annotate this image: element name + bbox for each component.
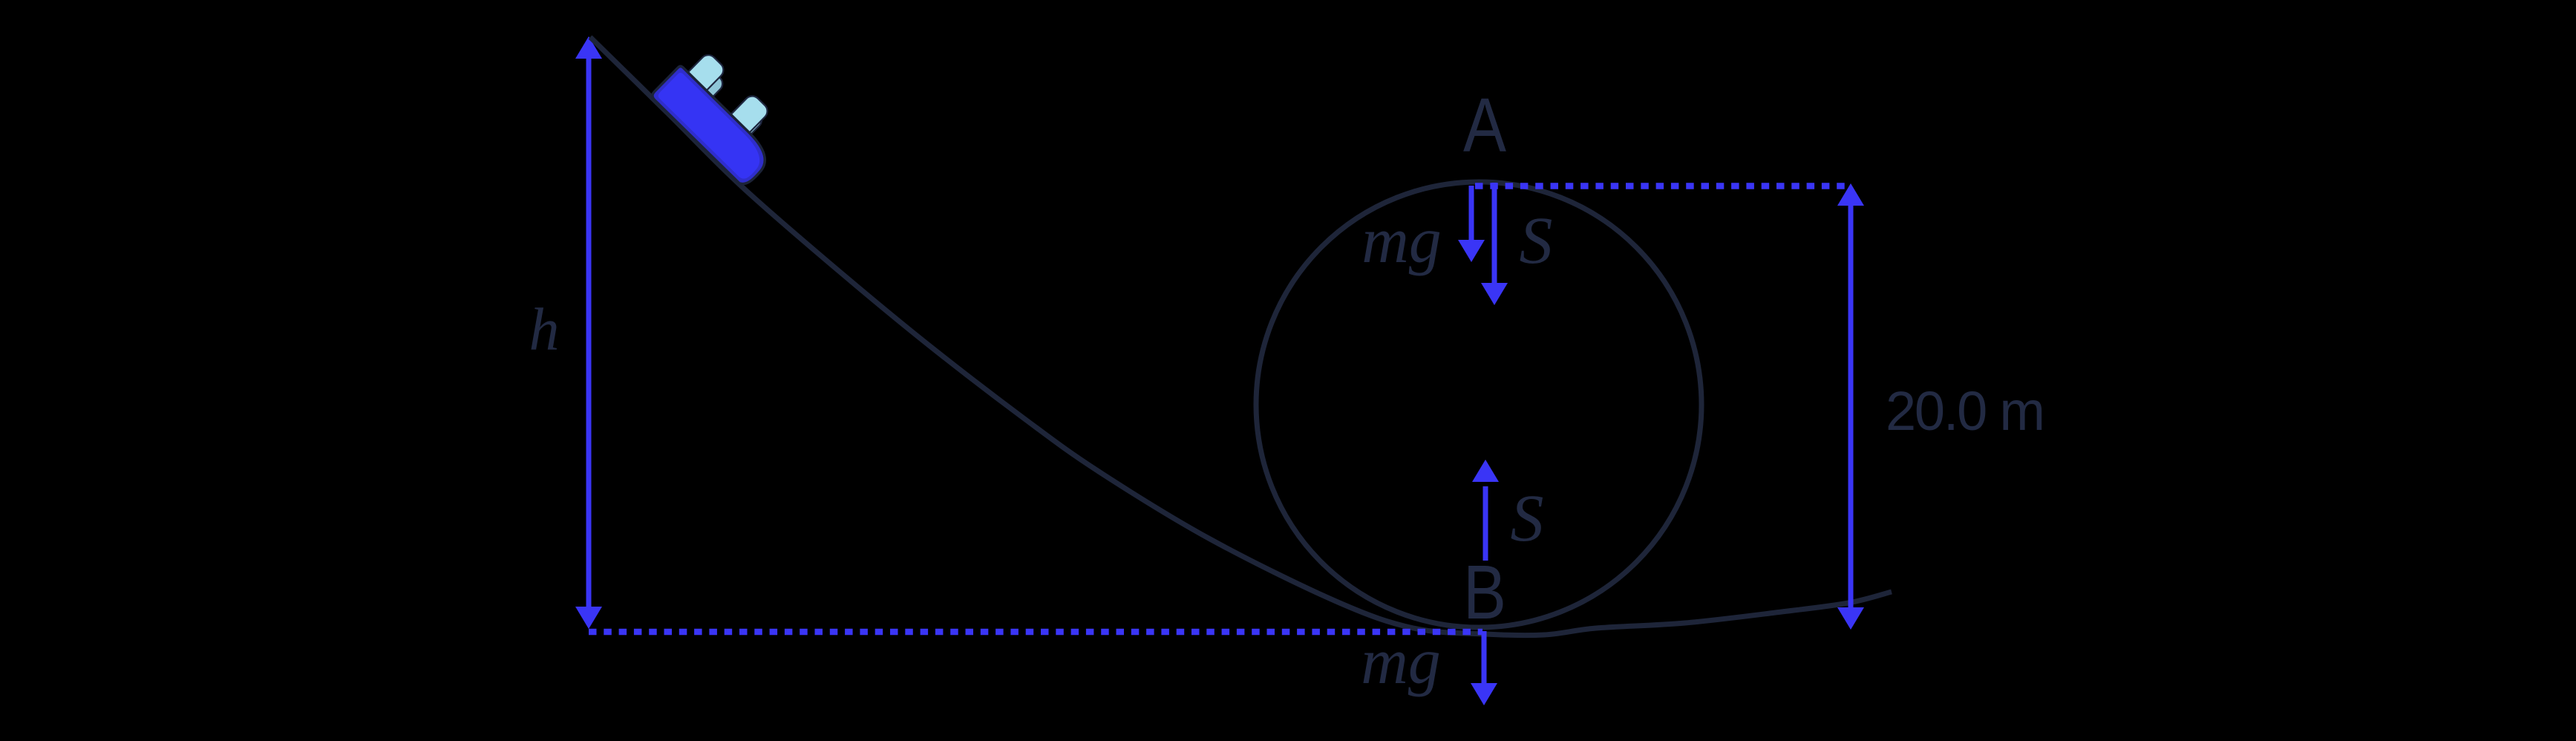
svg-text:S: S	[1520, 204, 1553, 278]
svg-text:S: S	[1511, 482, 1544, 555]
top dotted reference line	[1475, 183, 1851, 189]
track curve	[590, 37, 1892, 636]
svg-text:20.0 m: 20.0 m	[1886, 380, 2045, 442]
cart seat 2 front panel	[716, 93, 771, 148]
svg-text:mg: mg	[1361, 205, 1442, 277]
svg-text:h: h	[529, 296, 560, 363]
svg-text:A: A	[1463, 82, 1506, 168]
svg-text:B: B	[1463, 549, 1506, 635]
weight force arrow mg at A	[1458, 186, 1485, 262]
svg-text:mg: mg	[1361, 626, 1441, 698]
cart body inner fill	[656, 71, 768, 182]
weight force arrow mg at B	[1471, 631, 1497, 705]
cart seat 2 rear panel	[717, 103, 765, 151]
cart body outer rim	[650, 65, 774, 189]
diameter dimension arrow 20.0 m (right, double-headed blue)	[1837, 183, 1864, 630]
cart seat 1 front panel	[672, 52, 727, 107]
loop circle	[1256, 182, 1701, 627]
cart seat 1 rear panel	[676, 66, 725, 116]
support force arrow S at A	[1481, 183, 1508, 305]
support force arrow S at B	[1472, 460, 1499, 561]
roller coaster cart	[650, 43, 796, 188]
height dimension arrow h (left, double-headed blue)	[575, 36, 602, 629]
bottom dotted reference line	[589, 629, 1482, 636]
